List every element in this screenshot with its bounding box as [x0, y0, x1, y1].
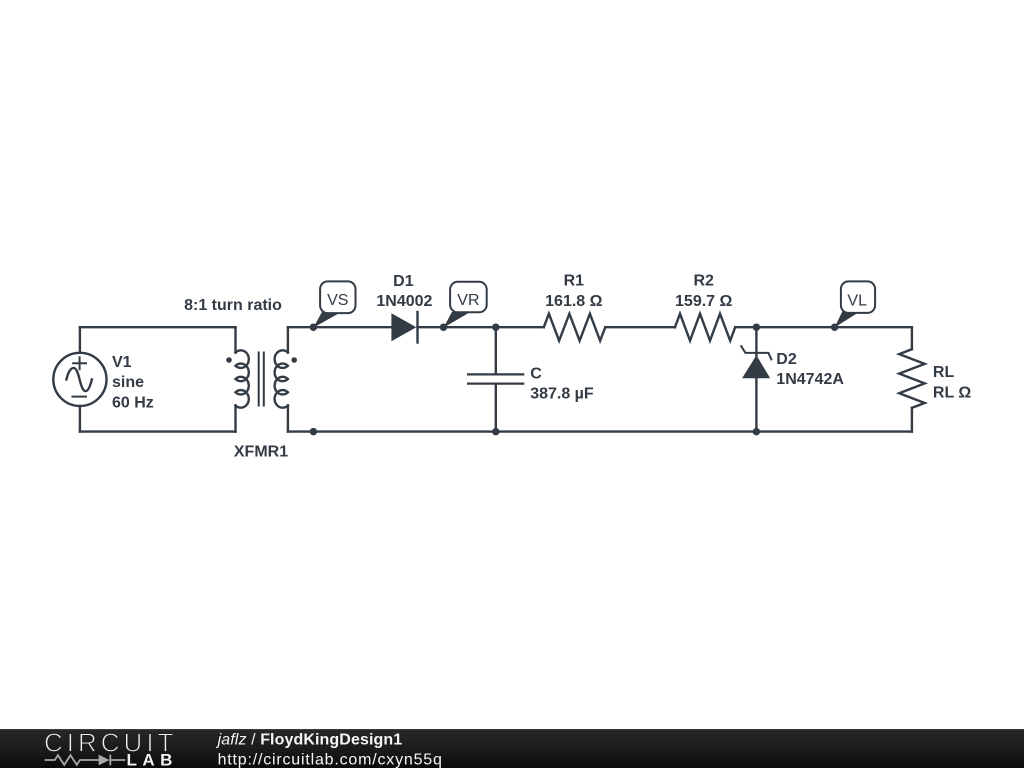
junction dot cap top	[492, 323, 500, 331]
svg-text:1N4002: 1N4002	[376, 293, 432, 310]
svg-text:RL: RL	[933, 364, 955, 381]
zener diode D2	[741, 327, 771, 431]
wire: D1 to R1	[418, 326, 544, 328]
CircuitLab logo wordmark LAB	[127, 750, 178, 768]
svg-text:C: C	[530, 366, 542, 383]
diode D1	[391, 312, 417, 343]
svg-text:1N4742A: 1N4742A	[776, 371, 844, 388]
junction dot bottom left	[310, 428, 318, 436]
footer bar	[0, 729, 1024, 768]
svg-text:159.7 Ω: 159.7 Ω	[675, 293, 732, 310]
junction dot D2 bottom	[753, 428, 761, 436]
R2 label	[675, 273, 732, 310]
R1 label	[545, 273, 602, 310]
CircuitLab logo resistor-diode squiggle	[45, 755, 126, 766]
junction dot VR	[440, 323, 448, 331]
junction dot D2 top	[753, 323, 761, 331]
resistor R1	[544, 314, 606, 341]
node VL flag	[835, 281, 876, 327]
voltage source V1	[53, 353, 106, 406]
junction dot VS top	[310, 323, 318, 331]
wire V1 top lead	[79, 327, 81, 353]
wire: R2 to RL	[735, 326, 912, 328]
CircuitLab logo wordmark CIRCUIT	[44, 727, 177, 757]
svg-text:R2: R2	[693, 273, 714, 290]
resistor R2	[675, 314, 735, 341]
svg-text:V1: V1	[112, 354, 132, 371]
footer url	[218, 751, 443, 768]
wire V1 bottom lead	[79, 406, 81, 432]
wire top: XFMR1 to D1	[288, 326, 392, 328]
D1 label	[376, 273, 432, 310]
svg-text:VR: VR	[457, 292, 479, 309]
transformer XFMR1	[226, 327, 297, 431]
svg-text:VS: VS	[327, 292, 348, 309]
svg-text:sine: sine	[112, 374, 144, 391]
wire bottom: V1 to XFMR1 primary	[80, 430, 236, 432]
junction dot VL	[831, 323, 839, 331]
svg-text:VL: VL	[847, 292, 867, 309]
svg-text:RL Ω: RL Ω	[933, 384, 971, 401]
svg-text:LAB: LAB	[127, 750, 178, 768]
wire bottom: XFMR1 to RL	[288, 430, 912, 432]
V1 label	[112, 354, 154, 411]
node VR flag	[444, 282, 487, 328]
C label	[530, 366, 594, 403]
svg-text:161.8 Ω: 161.8 Ω	[545, 293, 602, 310]
wire: R1 to R2	[605, 326, 675, 328]
node VS flag	[313, 281, 355, 327]
svg-text:jaflz / FloydKingDesign1: jaflz / FloydKingDesign1	[216, 732, 403, 749]
capacitor C	[468, 327, 523, 431]
svg-text:8:1 turn ratio: 8:1 turn ratio	[184, 297, 282, 314]
XFMR1 label	[234, 443, 288, 460]
svg-text:http://circuitlab.com/cxyn55q: http://circuitlab.com/cxyn55q	[218, 751, 443, 768]
svg-text:R1: R1	[564, 273, 585, 290]
svg-text:387.8 µF: 387.8 µF	[530, 386, 594, 403]
svg-text:60 Hz: 60 Hz	[112, 394, 154, 411]
svg-text:D1: D1	[393, 273, 414, 290]
wire top: V1 to XFMR1 primary	[80, 326, 236, 328]
junction dot cap bottom	[492, 428, 500, 436]
footer title: jaflz / FloydKingDesign1	[216, 732, 403, 749]
svg-text:XFMR1: XFMR1	[234, 443, 288, 460]
D2 label	[776, 351, 844, 388]
8:1 turn ratio label	[184, 297, 282, 314]
resistor RL	[899, 327, 925, 431]
RL label	[933, 364, 971, 401]
svg-text:D2: D2	[776, 351, 797, 368]
